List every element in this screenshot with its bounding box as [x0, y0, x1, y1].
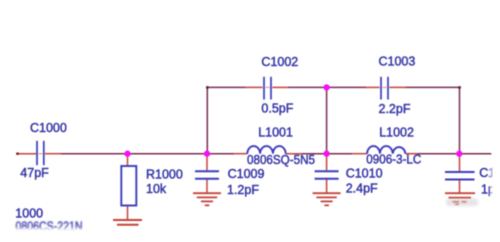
- ground below C1011: [445, 193, 478, 206]
- wire red junction3 to C1010: [326, 154, 328, 171]
- junction node main-C1011-rightloop: [456, 151, 462, 157]
- inductor L1001 left pin: [234, 153, 248, 155]
- svg-text:47pF: 47pF: [20, 166, 49, 180]
- wire red C1009 to ground: [206, 180, 208, 193]
- svg-text:2.2pF: 2.2pF: [379, 102, 411, 116]
- corner dot top-right: [458, 86, 460, 88]
- junction node top-C1002-C1003: [323, 84, 329, 90]
- inductor L1002 right pin: [405, 153, 417, 155]
- wire red C1010 to ground: [326, 180, 328, 193]
- svg-text:R1000: R1000: [146, 168, 183, 182]
- capacitor C1009 plates: [195, 171, 219, 178]
- wire red junction4 to C1011: [459, 154, 461, 172]
- svg-text:C1002: C1002: [261, 55, 298, 69]
- wire top loop middle vertical: [326, 87, 328, 153]
- capacitor C1000 left pin: [17, 153, 36, 155]
- svg-text:C1010: C1010: [346, 167, 383, 181]
- wire main dark segment left: [61, 153, 207, 155]
- inductor L1001 right pin: [286, 153, 302, 155]
- inductor L1002 coil: [367, 146, 405, 154]
- wire red junction2 to C1009: [206, 154, 208, 171]
- wire red C1011 to ground: [459, 181, 461, 193]
- wire red junction1 to R1000: [127, 154, 129, 166]
- corner dot top-left: [206, 86, 208, 88]
- right window edge fade: [490, 158, 500, 203]
- capacitor C1011 plates: [445, 172, 475, 180]
- svg-text:C1009: C1009: [228, 167, 265, 181]
- pin end dot C1000: [16, 153, 19, 155]
- capacitor C1002 right pin: [272, 86, 287, 88]
- junction node main-C1009-toploop: [204, 151, 210, 157]
- svg-text:0.5pF: 0.5pF: [261, 102, 293, 116]
- svg-text:C1003: C1003: [379, 54, 416, 68]
- svg-text:L1002: L1002: [379, 125, 414, 139]
- svg-text:0806SQ-5N5: 0806SQ-5N5: [247, 153, 315, 167]
- wire tint between C1003 plates: [383, 86, 387, 88]
- svg-text:C1000: C1000: [30, 121, 67, 135]
- junction node main-R1000: [124, 151, 130, 157]
- ground below C1010: [313, 193, 341, 205]
- capacitor C1003 right pin: [389, 86, 406, 88]
- wire top loop right vertical: [459, 87, 461, 154]
- capacitor C1002 plates: [264, 77, 271, 100]
- fade over clipped text: [0, 227, 110, 242]
- wire red R1000 to ground: [127, 206, 129, 220]
- capacitor C1000 right pin: [45, 153, 61, 155]
- wire top dark C1002 to C1003: [288, 86, 366, 88]
- wire top dark C1003 to right corner: [406, 86, 460, 88]
- wire top dark corner to C1002: [207, 86, 246, 88]
- svg-text:L1001: L1001: [258, 125, 293, 139]
- junction node main-C1010-midvertical: [323, 151, 329, 157]
- wire main dark segment L1002 to junction4: [418, 153, 492, 155]
- svg-text:1000: 1000: [15, 207, 43, 221]
- inductor L1002 left pin: [352, 153, 367, 155]
- capacitor C1003 left pin: [366, 86, 380, 88]
- resistor R1000 body: [121, 166, 136, 206]
- svg-text:1.2pF: 1.2pF: [227, 183, 259, 197]
- svg-text:2.4pF: 2.4pF: [346, 182, 378, 196]
- inductor L1001 coil: [247, 146, 285, 154]
- ground below C1009: [193, 193, 221, 205]
- wire top loop left vertical: [206, 87, 208, 154]
- wire tint between C1000 plates: [39, 153, 43, 155]
- ground below R1000: [113, 220, 142, 225]
- svg-text:10k: 10k: [146, 182, 167, 196]
- wire main dark segment junction2 to L1001: [207, 153, 234, 155]
- capacitor C1003 plates: [381, 77, 388, 100]
- capacitor C1000 plates: [37, 141, 44, 165]
- capacitor C1010 plates: [315, 171, 339, 178]
- wire main dark segment L1001 to junction3: [302, 153, 353, 155]
- capacitor C1002 left pin: [246, 86, 263, 88]
- svg-text:0906-3-LC: 0906-3-LC: [366, 152, 421, 166]
- wire tint between C1002 plates: [266, 86, 270, 88]
